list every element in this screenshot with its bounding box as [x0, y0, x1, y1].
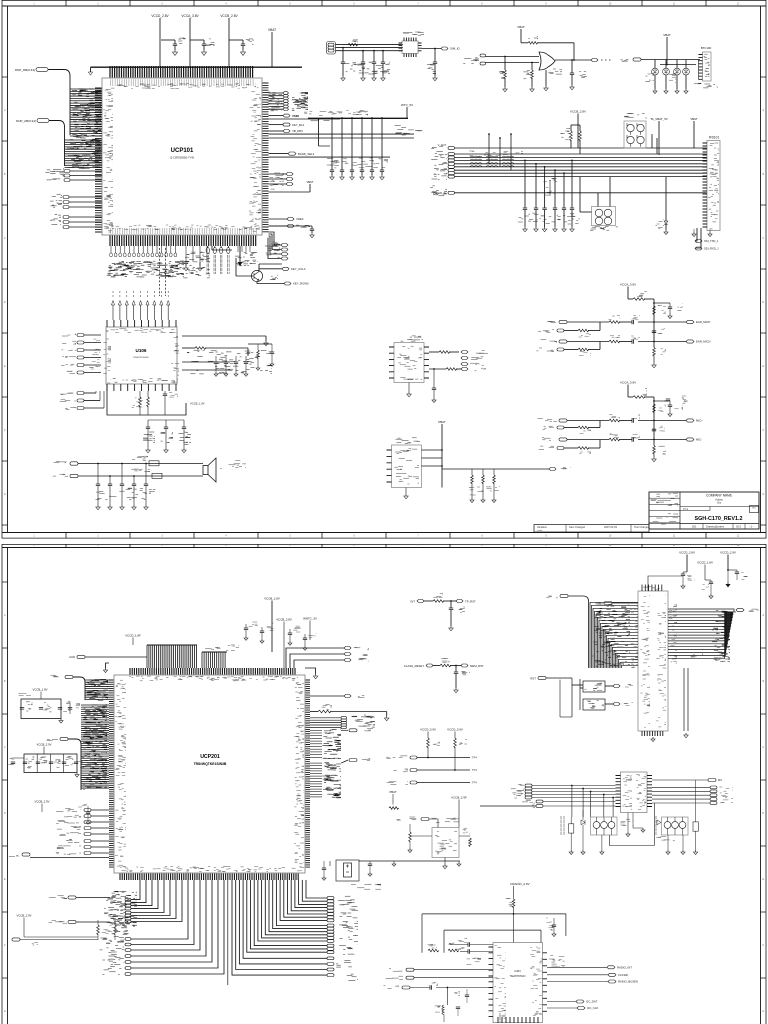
IFD bus nets [430, 143, 707, 196]
net label stacks right [327, 896, 358, 980]
svg-text:G3N: G3N [514, 969, 520, 973]
svg-text:TP4: TP4 [472, 768, 477, 772]
UCP201 top comb wall B [202, 652, 227, 668]
svg-text:VCCB_1.8V: VCCB_1.8V [190, 402, 205, 406]
svg-text:RADIO_INT: RADIO_INT [617, 966, 632, 970]
svg-text:NC: NC [684, 399, 688, 403]
labels TX_GSM [463, 58, 479, 64]
transistor pair block Q10x [624, 114, 647, 149]
svg-text:SDI_RXD_J: SDI_RXD_J [704, 247, 719, 251]
net AUD [69, 655, 147, 672]
transistor array left [591, 817, 635, 835]
svg-text:Q-CSP2000B1-TV-B: Q-CSP2000B1-TV-B [170, 156, 194, 160]
keypad resistor/LED right [656, 780, 698, 855]
svg-text:mode: mode [537, 530, 543, 532]
svg-text:KEY_COL3: KEY_COL3 [291, 267, 306, 271]
bus DNP_DB(0:4) right [310, 758, 375, 797]
net KEY_BL4 [269, 123, 305, 127]
page 1 sheet frame [2, 0, 766, 539]
svg-text:VCCB_2.9F: VCCB_2.9F [451, 796, 467, 800]
connector keypad/LCD [616, 772, 653, 813]
net A(1:P1) [546, 594, 588, 668]
op-amp U401 [480, 52, 562, 74]
ground opamp [544, 70, 549, 91]
UCP101 right pin comb [249, 83, 269, 232]
svg-text:VCCB_1.8V: VCCB_1.8V [32, 688, 47, 692]
svg-text:INT: INT [410, 599, 415, 603]
SIM cap bank [341, 47, 390, 81]
power net labels VCCD/VCCA/VCCB [151, 14, 238, 67]
nets UPIF_CE/CSP_SMB/FLASH_RESET [45, 168, 102, 181]
svg-text:PBAT: PBAT [389, 790, 396, 794]
L/C cluster [543, 178, 557, 196]
net VREF [269, 217, 304, 221]
svg-text:VBAT: VBAT [663, 33, 671, 37]
resistor R402 [523, 62, 534, 92]
svg-text:RST: RST [530, 676, 536, 680]
svg-text:U106: U106 [136, 348, 147, 353]
power row labels [304, 110, 368, 115]
wire cap rail [269, 156, 391, 158]
svg-text:VBAT: VBAT [690, 117, 698, 121]
svg-text:MIC-: MIC- [696, 438, 702, 442]
radio feedback loop wires [422, 914, 566, 953]
svg-text:FLASH_RESET: FLASH_RESET [404, 664, 424, 668]
capacitor C610 [229, 39, 254, 56]
resistor pack row below UCP101 [107, 246, 184, 277]
svg-text:DNP_DB(0:43): DNP_DB(0:43) [15, 68, 35, 72]
IC UCP101 [102, 78, 262, 235]
battery connector BT201 [322, 860, 461, 889]
net AD(:P0) [47, 737, 82, 790]
bus bundle DB [70, 89, 102, 138]
net ADR [595, 601, 638, 605]
svg-text:VCCD_2.8V: VCCD_2.8V [679, 551, 695, 555]
svg-text:VCCB_2.8V: VCCB_2.8V [276, 618, 292, 622]
net B6_B0B [12, 938, 98, 945]
RC reset 2 (FLASH_RESET/MEM_RST) [404, 658, 484, 692]
RC reset 1 (INT/TP_RST) [410, 593, 476, 631]
svg-text:AUD: AUD [69, 655, 75, 659]
svg-text:VCCD_1.8F: VCCD_1.8F [125, 634, 141, 638]
svg-text:MEM_RST: MEM_RST [470, 664, 484, 668]
resistor R401 [499, 56, 507, 92]
nets RADIO/KEY group right [310, 715, 375, 729]
svg-text:G: G [762, 493, 764, 496]
labels 27_B [616, 654, 703, 666]
IC UCP201 [114, 675, 305, 873]
net BP_CF [9, 853, 109, 858]
svg-text:TEA5767HN: TEA5767HN [510, 974, 526, 978]
fan-out right staircase [232, 880, 327, 975]
svg-text:C: C [762, 746, 764, 749]
svg-text:VSIM: VSIM [292, 114, 300, 118]
wire TRKBDA rail [269, 118, 341, 146]
svg-text:Rev: Rev [752, 508, 756, 510]
bus bundle AD [81, 705, 109, 790]
U106 left input nets [61, 334, 101, 375]
svg-text:ADR: ADR [595, 601, 601, 605]
net VCCB_2.8V ifd [560, 110, 586, 155]
UCP201 bottom pin comb [120, 866, 302, 880]
UCP201 right pin comb [294, 680, 310, 868]
audio filter EAR_MIC [536, 283, 710, 368]
fan-out middle deep pair [225, 880, 233, 985]
net PTCM [269, 225, 311, 228]
wire long pair to RF [269, 125, 425, 138]
nets MODE group [50, 215, 102, 229]
memory left bus staircase [590, 602, 638, 668]
svg-text:VCCB_2.9V: VCCB_2.9V [34, 800, 49, 804]
svg-text:KEY_BL4: KEY_BL4 [292, 123, 305, 127]
capacitor right [269, 226, 315, 238]
svg-text:IFD101: IFD101 [709, 136, 720, 140]
U106 right RC network [182, 336, 274, 376]
svg-text:VCCB_2.8V: VCCB_2.8V [220, 14, 238, 18]
IC DK30 charger [387, 420, 572, 503]
svg-text:Tool Charged: Tool Charged [634, 525, 650, 529]
IC U103 RLM6000 [389, 336, 488, 403]
capacitor C68 [161, 38, 186, 55]
svg-text:VCCD_1.8V: VCCD_1.8V [697, 561, 713, 565]
radio input RC [424, 938, 493, 964]
radio antenna input [384, 968, 494, 1022]
nets VSIM group [50, 194, 102, 208]
svg-text:TP4: TP4 [472, 756, 477, 760]
svg-text:D: D [4, 812, 6, 815]
UCP101 left pin comb [95, 88, 113, 232]
svg-text:BTC100: BTC100 [701, 46, 712, 50]
audio filter MIC [538, 381, 704, 462]
svg-text:BAND_SEL4: BAND_SEL4 [298, 152, 315, 156]
svg-text:FRADIO_2.9V: FRADIO_2.9V [510, 882, 529, 886]
connector BTC100 [694, 46, 718, 88]
svg-text:EAR_MICN: EAR_MICN [696, 340, 710, 344]
capacitor C59 [570, 59, 587, 90]
net TA_VBAT_5V [650, 117, 668, 155]
net REF_COL(0:4) [49, 891, 137, 909]
svg-text:UCP201: UCP201 [200, 754, 220, 760]
net VBAT opamp [517, 25, 574, 60]
net VSIM [269, 114, 300, 118]
svg-text:KEY_ROW0: KEY_ROW0 [293, 282, 309, 286]
memory power rails [648, 551, 749, 599]
net RF_IF [621, 58, 701, 65]
svg-text:C: C [4, 746, 6, 749]
svg-text:VCCA_3.9V: VCCA_3.9V [620, 283, 636, 287]
capacitors C310-C315 [8, 743, 85, 778]
SIM connector J101 [327, 42, 404, 55]
LED/diode bank [645, 60, 689, 94]
svg-text:D: D [762, 301, 764, 304]
U106 bottom-left nets [60, 391, 104, 410]
wires UCP101 to IFD [488, 133, 657, 170]
transistor array right [656, 817, 688, 841]
UCP201 top power drops [125, 597, 317, 669]
right cluster below UCP101 [235, 246, 258, 266]
svg-text:VCCD_2.8V: VCCD_2.8V [151, 14, 169, 18]
svg-text:Sam Charged: Sam Charged [569, 525, 586, 529]
IC ALPS switch [580, 177, 618, 231]
svg-text:MSM7512BGM: MSM7512BGM [134, 357, 149, 359]
U106 keypad arrows [111, 291, 169, 320]
net DNP_AB(0:24) [16, 119, 64, 166]
bus bundle D [85, 679, 109, 700]
keypad drop wires [571, 785, 614, 817]
nets TP_RST group [286, 647, 369, 698]
IC U106 [103, 320, 179, 391]
page 2 sheet frame [2, 544, 766, 1024]
nets SDI_TXD/RXD [695, 228, 719, 251]
wire top bus [88, 67, 302, 75]
svg-text:VBAT: VBAT [517, 25, 525, 29]
svg-text:37.2: 37.2 [683, 507, 689, 511]
svg-text:Variation: Variation [537, 525, 548, 529]
nets SIM signal group [267, 92, 309, 111]
net VBAT ifd [690, 117, 698, 148]
net label stack left [100, 896, 131, 975]
LED pair ifd [656, 177, 669, 235]
svg-text:C: C [762, 237, 764, 240]
svg-text:VREF: VREF [296, 217, 304, 221]
svg-text:CLK32K: CLK32K [618, 973, 629, 977]
net KEY_COL3 [259, 267, 306, 271]
svg-text:G: G [4, 493, 6, 496]
ground ucp201 top right [305, 668, 318, 679]
svg-text:VCCD_2.9V: VCCD_2.9V [720, 551, 736, 555]
svg-text:VCCA_3.8V: VCCA_3.8V [181, 14, 199, 18]
transistor Q101 [236, 258, 282, 282]
svg-text:DrawingSystem: DrawingSystem [706, 525, 724, 529]
svg-text:DNP_AB(0:24): DNP_AB(0:24) [16, 119, 36, 123]
regulator E302 [388, 790, 471, 869]
LCD/CF control nets [56, 808, 109, 854]
UCP101 top pin comb [110, 66, 256, 88]
wire keypad pair down [160, 248, 166, 296]
resistor R110 [348, 40, 358, 46]
net KEY_ROW0 [257, 282, 309, 286]
svg-text:D: D [4, 301, 6, 304]
svg-text:I2C_CLK: I2C_CLK [587, 1006, 598, 1010]
speaker cap bank [96, 463, 156, 510]
svg-text:TP_RST: TP_RST [465, 599, 476, 603]
net VB_DRV [269, 129, 304, 133]
svg-text:I2C_DAT: I2C_DAT [586, 1000, 598, 1004]
revision strip [534, 525, 650, 533]
svg-text:UCP101: UCP101 [171, 148, 194, 154]
svg-text:D: D [762, 812, 764, 815]
IC U102 SIM filter [399, 32, 425, 57]
net REF_ROW(0:4) [49, 916, 137, 935]
svg-text:MIC+: MIC+ [696, 419, 703, 423]
UCP201 top pin comb [129, 668, 298, 681]
radio supply [506, 882, 530, 943]
svg-text:VCCA_3.9V: VCCA_3.9V [620, 381, 636, 385]
keypad resistor/LED left [561, 810, 585, 855]
connector IFD101 [703, 136, 721, 231]
radio right nets [547, 956, 638, 1011]
svg-text:G: G [762, 1010, 764, 1013]
net SIM_IO [422, 47, 461, 81]
svg-text:SDI_TXD_J: SDI_TXD_J [704, 239, 719, 243]
svg-text:VCCD_3.9V: VCCD_3.9V [447, 728, 463, 732]
clock label columns [206, 246, 242, 274]
svg-text:TA_VBAT_5V: TA_VBAT_5V [650, 117, 668, 121]
title block page 1 (SGH-C170_REV1.2) [649, 492, 759, 529]
memory bottom trunk [642, 668, 688, 742]
svg-text:VCCD_3.9V: VCCD_3.9V [420, 728, 436, 732]
svg-text:RADIO_BUSEN: RADIO_BUSEN [618, 980, 638, 984]
net WTC_5V line [299, 93, 413, 118]
speaker SPK101 [53, 456, 246, 482]
wire opamp output [555, 59, 611, 62]
IC radio TEA5767 [489, 943, 548, 1023]
svg-text:VCCB_2.9V: VCCB_2.9V [16, 914, 31, 918]
svg-text:V_ANT: V_ANT [438, 143, 447, 147]
connector U301 memory [638, 585, 668, 732]
UCP201 top comb wall A [147, 645, 197, 668]
bus DNP_AB(0:4) right [310, 729, 375, 759]
svg-text:WTC_5V: WTC_5V [401, 103, 413, 107]
svg-text:VCCB_2.8V: VCCB_2.8V [570, 110, 586, 114]
fan-out left staircase [131, 880, 224, 974]
net D(6:0) [51, 675, 86, 700]
svg-text:VBAT: VBAT [268, 28, 276, 32]
svg-text:SIM_IO: SIM_IO [450, 47, 461, 51]
inductor bank on bus [469, 151, 523, 167]
svg-text:WNTC_3V: WNTC_3V [303, 617, 317, 621]
svg-text:EAR_MICP: EAR_MICP [696, 320, 710, 324]
IFD grounds [692, 229, 712, 237]
net DNP_DB(0:43) [15, 68, 70, 135]
memory right bus staircase [668, 605, 759, 663]
pullups R3xx [16, 914, 116, 941]
svg-text:G: G [4, 1010, 6, 1013]
wire VBAT drop [268, 28, 276, 67]
svg-text:VCCB_1.8V: VCCB_1.8V [264, 597, 280, 601]
net BAND_SEL [269, 152, 315, 156]
svg-text:MC: MC [718, 778, 722, 782]
U106 bottom RC [107, 384, 205, 415]
capacitor C69 [190, 39, 215, 56]
keypad right nets [652, 778, 733, 804]
UCP201 left pin comb [109, 680, 126, 868]
net VBAT btc [663, 33, 671, 65]
reset distribution blocks [530, 676, 633, 717]
resistor R210 line [310, 705, 389, 721]
svg-text:TR8#WQTKE1SIN3B: TR8#WQTKE1SIN3B [194, 762, 227, 766]
svg-text:PBAT: PBAT [438, 420, 446, 424]
svg-text:TP4: TP4 [472, 781, 477, 785]
keypad left nets [480, 784, 616, 808]
svg-text:VB_DRV: VB_DRV [292, 129, 303, 133]
svg-text:- 2 -: - 2 - [749, 525, 754, 529]
svg-text:30.0: 30.0 [736, 525, 742, 529]
decoupling capacitor row [327, 117, 388, 180]
UART pullups DEBUG_RXD/TXD/CTS [386, 728, 477, 785]
keypad grounds [600, 803, 685, 854]
TTX capacitor stacks [143, 420, 191, 453]
svg-text:VCCB_2.9V: VCCB_2.9V [36, 743, 51, 747]
svg-text:2007.03.03: 2007.03.03 [604, 525, 618, 529]
nets VSLIM/PWR group [265, 232, 288, 260]
svg-text:JIG_ON_IF: JIG_ON_IF [433, 191, 447, 195]
svg-text:501: 501 [692, 525, 697, 529]
capacitors C303-C305 [19, 688, 81, 724]
net VCCB_2.9V small [34, 800, 90, 825]
svg-text:VBAT: VBAT [306, 180, 313, 184]
svg-text:COMPANY NAME: COMPANY NAME [706, 494, 732, 498]
mid cluster below UCP101 [183, 246, 232, 278]
bus shunt capacitor bank [518, 160, 580, 232]
svg-text:C: C [4, 237, 6, 240]
nets UP_CS/UP_RD/UP_WE [269, 173, 314, 193]
UCP101 bottom pin comb [110, 225, 261, 246]
bus bundle AB [65, 139, 103, 168]
svg-text:SGH-C170_REV1.2: SGH-C170_REV1.2 [695, 516, 743, 522]
